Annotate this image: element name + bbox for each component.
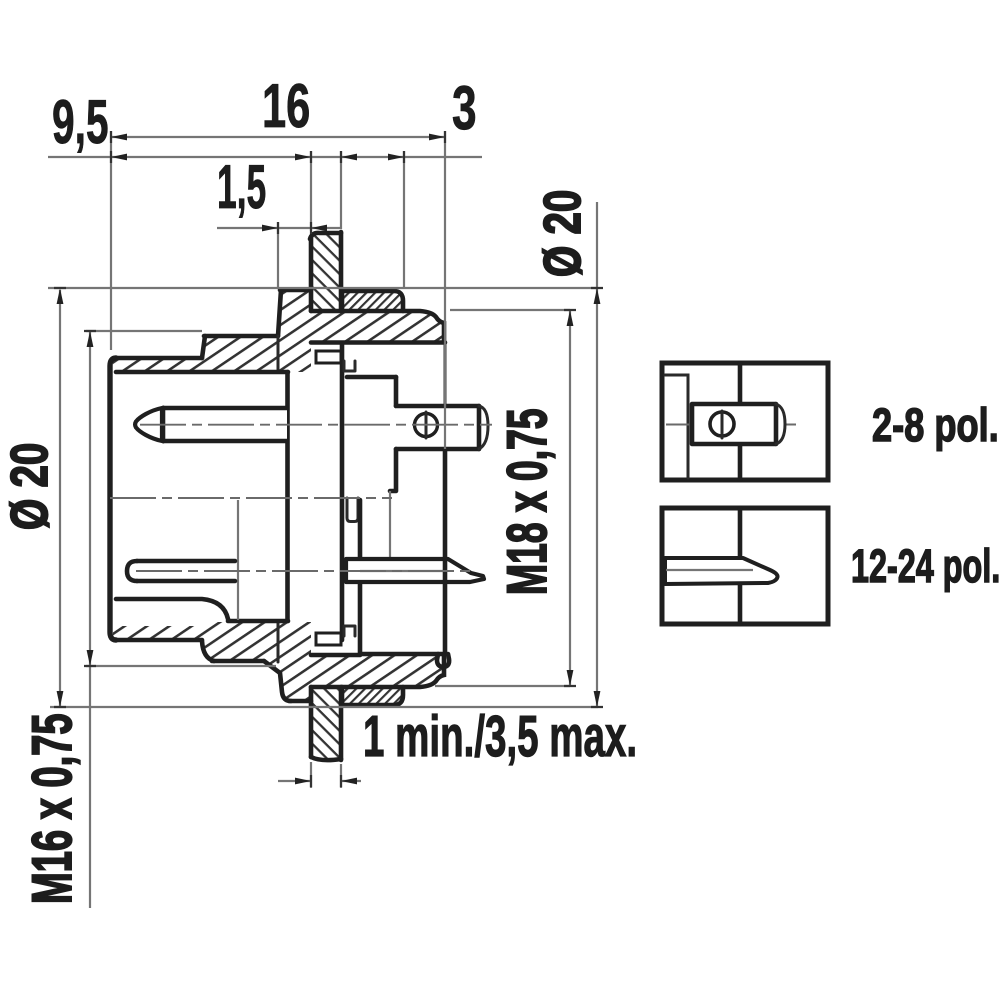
below cup step [390,449,396,491]
dim line M18 [569,310,571,686]
label dia 20 right [543,191,582,275]
extension line x445 [444,131,446,449]
panel bottom right edge [339,687,344,760]
ticks dia20L [54,288,66,707]
panel bottom cap [311,757,341,760]
extension y288 shared [48,287,597,289]
key lug bottom [316,633,341,645]
box2 blade contact [665,558,778,584]
shell inner vertical [358,500,363,654]
extension panel bottom x341 [340,764,342,788]
rear body left face [110,358,116,640]
label 1,5 [219,165,265,217]
extension line x278 [277,222,279,287]
M16 thread section top hatch [202,336,278,372]
box2 blade inner line [666,569,753,571]
label 3 [453,86,475,130]
extension y310 M18 top [450,309,570,311]
arrow M16 top [87,331,94,347]
key lug top tick [344,361,355,371]
nut top band hatch [311,311,444,341]
label dia 20 left [10,444,49,528]
tick 16 left [110,131,112,143]
dim line dia20 left [59,290,61,707]
solder cup rim [477,406,482,449]
extension line x341 top [340,151,342,229]
dim line panel thickness right [341,780,361,782]
step to M16 section bottom [202,641,214,661]
rear body top edge [114,356,202,361]
extension line x404 [403,151,405,288]
screw hole tick [721,411,724,438]
solder cup outer cap [479,406,488,449]
arrow 16 left [111,134,127,141]
flange left boundary bottom [277,622,280,662]
ticks panel [311,775,341,787]
box1 centerline [666,424,800,426]
label 16 [265,84,309,128]
rear body bottom wall hatch [113,626,202,640]
ticks M16 [84,331,96,666]
centerline main axis [110,497,392,499]
dim line panel thickness left [278,780,311,782]
screw outer cap [776,404,785,444]
label 2-8 pol. [873,407,996,451]
arrow 3 right [388,154,404,161]
nut top outline [311,311,444,341]
lower pin rounded end [127,561,137,581]
shell front face lower [443,449,448,654]
front opening step to cup [394,377,399,406]
extension y666 M16 bottom [86,665,276,667]
solder cup outline [396,406,479,449]
extension line x311 top [310,151,312,231]
arrow panel right [341,778,357,785]
label 1 min./3,5 max. [365,714,634,765]
solder hole tick [425,412,428,438]
upper pin tip [135,408,162,441]
panel bottom left edge [309,687,314,757]
extension y707 shared [50,706,598,708]
M16 thread section bottom hatch [202,622,278,662]
shell rear vertical [340,344,345,640]
solder cup body [396,406,489,449]
arrow 1,5 left [262,225,278,232]
flange top edge [280,288,311,293]
blade contact [346,559,484,582]
arrow 3 left [341,154,357,161]
extension y331 M16 top [86,330,202,332]
cavity top inner edge [116,370,288,375]
solder hole [415,414,438,437]
rear body bottom edge [114,638,202,643]
arrow 9,5 right [295,154,311,161]
box2 center divider [738,508,743,624]
panel top right edge [339,232,344,311]
screw hole [710,412,734,436]
flange left boundary top [277,336,280,372]
centerline lower pin [136,570,470,572]
label 9,5 [53,100,107,153]
insulator front face upper [285,372,290,621]
dim line 16 [111,136,445,138]
label M16 x 0,75 [32,714,80,901]
flange left chamfer bottom [264,661,291,701]
label M18 x 0,75 [507,410,555,593]
arrow dia20L top [57,288,64,304]
cavity floor ledge [116,599,228,619]
rear body top wall hatch [113,359,202,372]
arrow 16 right [429,134,445,141]
dim line 1,5 [217,227,342,229]
centerline upper pin [140,424,492,426]
ticks dia20R [591,288,603,707]
ticks on line2 [111,151,404,163]
arrow M18 bottom [567,670,574,686]
washer bottom outline [342,687,403,705]
M16 section top edge [204,334,278,339]
arrow panel left [295,778,311,785]
extension line x111 [110,131,112,350]
panel top cap [310,233,341,239]
dim line dia20 right [596,202,598,707]
panel bottom hatch [311,687,341,758]
arrow dia20R bottom [594,691,601,707]
insulator inner edge lower [237,500,239,620]
screw rim [774,404,779,444]
shell front foot [437,654,449,667]
nut bottom top edge [311,653,360,658]
detail box 2-8 pol [662,363,828,480]
nut bottom outline [311,656,444,687]
flange bottom edge [289,699,311,704]
key lug bottom tick [344,626,355,636]
screw outline [692,404,775,444]
arrow dia20L bottom [57,691,64,707]
washer bottom hatch [342,687,403,705]
flange bottom hatch [264,622,311,701]
tick 16 right [444,131,446,143]
flange left chamfer top [278,290,281,336]
step to M16 section top [202,336,205,358]
arrow 9,5 left [111,154,127,161]
blade inner line [360,570,446,572]
label 12-24 pol. [853,548,998,592]
dim line 9,5 and 3 [48,156,482,158]
extension y686 M18 bottom [435,685,570,687]
screw body [692,404,786,444]
washer top outline [342,291,403,311]
arrow M16 bottom [87,650,94,666]
panel top hatch [311,234,341,311]
M16 section bottom edge [212,659,264,664]
box1 left step line [665,375,688,478]
box1 center divider [738,363,743,480]
key lug top [316,351,341,363]
arrow dia20R top [594,288,601,304]
lower pin outline [137,561,235,581]
front opening top edge [347,375,396,380]
insulator face lower thin [389,491,391,558]
upper pin outline [163,408,287,441]
shell front face upper [444,344,447,406]
cavity floor [228,619,288,624]
extension panel bottom x311 [310,762,312,788]
dim line M16 [89,331,91,908]
lower pin body [137,561,235,581]
nut bottom band hatch [311,656,444,686]
ticks M18 [564,310,576,686]
panel top left edge [309,237,314,311]
upper pin body [163,408,287,441]
spring clip [347,498,358,522]
nut top bottom edge / shell top edge [311,340,445,345]
detail box 12-24 pol [662,508,828,624]
arrow 1,5 right [311,225,327,232]
washer top hatch [342,291,403,311]
flange top hatch [278,290,311,372]
arrow M18 top [567,310,574,326]
shell bottom edge [360,652,445,657]
ticks 1,5 [278,222,311,234]
